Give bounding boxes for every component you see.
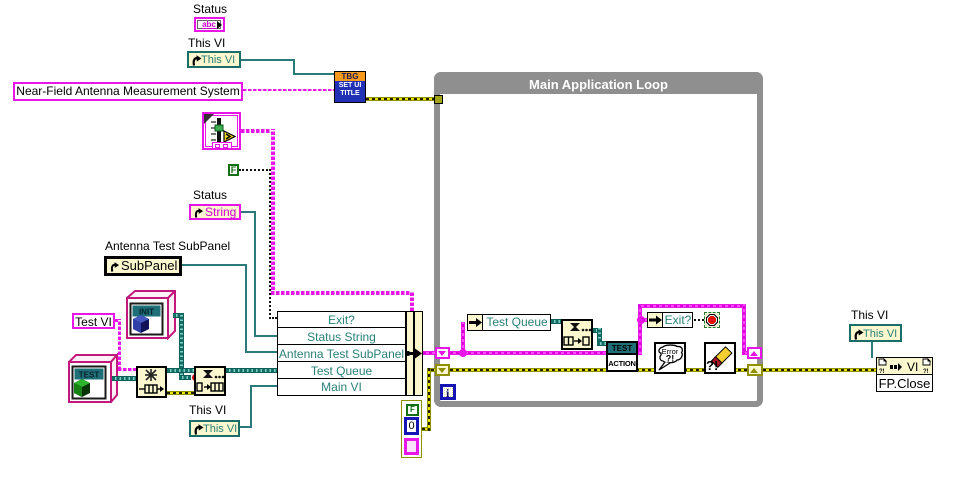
svg-text:VI: VI [907, 360, 918, 374]
svg-text:?!: ?! [706, 358, 718, 372]
svg-text:TEST: TEST [79, 371, 100, 380]
svg-text:?!: ?! [923, 369, 929, 375]
svg-text:?!: ?! [666, 354, 675, 364]
svg-text:?!: ?! [879, 369, 885, 375]
